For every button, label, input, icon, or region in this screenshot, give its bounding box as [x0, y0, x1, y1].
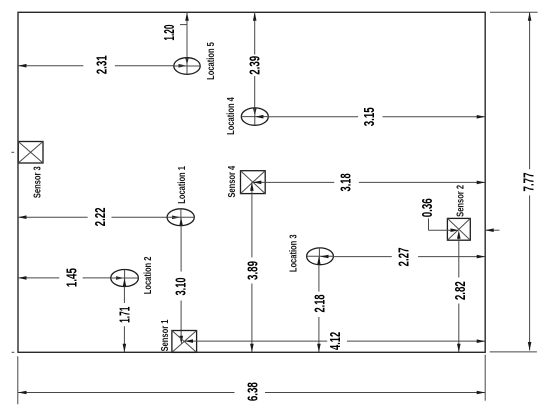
dimension 0.36 outside arrow at right wall [485, 228, 499, 232]
dimension 2.27 from Location 3 to right wall [320, 248, 485, 267]
dimension 2.39 from top wall to Location 4 [246, 12, 263, 116]
tick mark left of bottom-left corner [12, 351, 15, 353]
svg-text:Sensor 2: Sensor 2 [454, 185, 465, 217]
dimension 2.18 from Location 3 down to bottom wall [311, 256, 328, 352]
dimension 6.38 extension line left [17, 356, 19, 404]
dimension 3.18 from Sensor 4 to right wall [253, 173, 485, 191]
dimension 4.12 from Sensor 1 to right wall [185, 332, 486, 350]
svg-text:2.39: 2.39 [246, 56, 263, 75]
dimension 7.77 extension line bottom [490, 351, 537, 353]
dimension 6.38 across bottom [18, 382, 485, 401]
svg-text:2.82: 2.82 [452, 281, 469, 300]
svg-text:Location 5: Location 5 [205, 42, 216, 80]
dimension 2.82 from Sensor 2 down to bottom wall [452, 230, 469, 352]
Location 3 marker ellipse with center cross [307, 248, 334, 265]
label Sensor 3 [32, 166, 43, 198]
svg-text:2.18: 2.18 [311, 294, 328, 312]
Sensor 4 box with X [241, 171, 266, 194]
label Sensor 4 [226, 165, 237, 198]
dimension 1.45 from left wall to Location 2 [18, 268, 125, 287]
svg-text:1.20: 1.20 [161, 24, 178, 40]
svg-text:2.27: 2.27 [395, 248, 412, 267]
tick mark left of Sensor 3 [11, 151, 14, 153]
Sensor 3 box with X on left wall [18, 142, 43, 164]
dimension 7.77 extension line top [490, 11, 538, 13]
svg-text:1.45: 1.45 [63, 268, 80, 287]
dimension 2.22 from left wall to Location 1 [18, 207, 181, 226]
Location 2 marker ellipse with center cross [111, 270, 139, 287]
svg-text:Location 2: Location 2 [142, 257, 153, 295]
svg-text:3.15: 3.15 [361, 107, 378, 126]
room wall rectangle [18, 12, 485, 352]
svg-text:2.22: 2.22 [92, 207, 109, 226]
label Sensor 1 [159, 320, 170, 352]
dimension 3.10 from Location 1 down to Sensor 1 [172, 217, 189, 344]
label Location 1 [176, 166, 187, 204]
Location 1 marker ellipse with center cross [167, 209, 194, 226]
svg-text:Location 1: Location 1 [176, 166, 187, 204]
svg-text:4.12: 4.12 [327, 332, 344, 350]
svg-text:Location 3: Location 3 [287, 234, 298, 272]
svg-text:3.89: 3.89 [244, 261, 261, 280]
label Sensor 2 [454, 185, 465, 217]
svg-text:Sensor 4: Sensor 4 [226, 165, 237, 198]
svg-text:3.18: 3.18 [337, 173, 354, 191]
svg-text:1.71: 1.71 [116, 306, 133, 322]
Location 5 marker ellipse with center cross [174, 58, 200, 75]
dimension 0.36 leader from text to Sensor 2 center [419, 198, 459, 232]
Location 4 marker ellipse with center cross [241, 108, 268, 125]
dimension 3.89 from Sensor 4 down to bottom wall [244, 182, 261, 352]
dimension 7.77 along right side [520, 12, 537, 350]
svg-text:7.77: 7.77 [520, 173, 537, 192]
svg-text:6.38: 6.38 [244, 382, 261, 401]
dimension 3.15 from Location 4 to right wall [255, 107, 485, 126]
svg-text:Sensor 1: Sensor 1 [159, 320, 170, 352]
svg-text:Location 4: Location 4 [225, 96, 236, 134]
svg-text:3.10: 3.10 [172, 277, 189, 295]
svg-text:Sensor 3: Sensor 3 [32, 166, 43, 198]
dimension 2.31 from left wall to Location 5 [18, 55, 187, 74]
dimension 1.20 from top wall to Location 5 [161, 12, 189, 65]
label Location 5 [205, 42, 216, 80]
dimension 1.71 from Location 2 down to bottom wall [116, 278, 133, 352]
label Location 3 [287, 234, 298, 272]
Sensor 2 box with X [447, 218, 470, 240]
dimension 6.38 extension line right [484, 355, 486, 401]
label Location 4 [225, 96, 236, 134]
label Location 2 [142, 257, 153, 295]
svg-text:0.36: 0.36 [419, 198, 436, 217]
svg-text:2.31: 2.31 [93, 55, 110, 74]
Sensor 1 box with X [172, 331, 197, 353]
